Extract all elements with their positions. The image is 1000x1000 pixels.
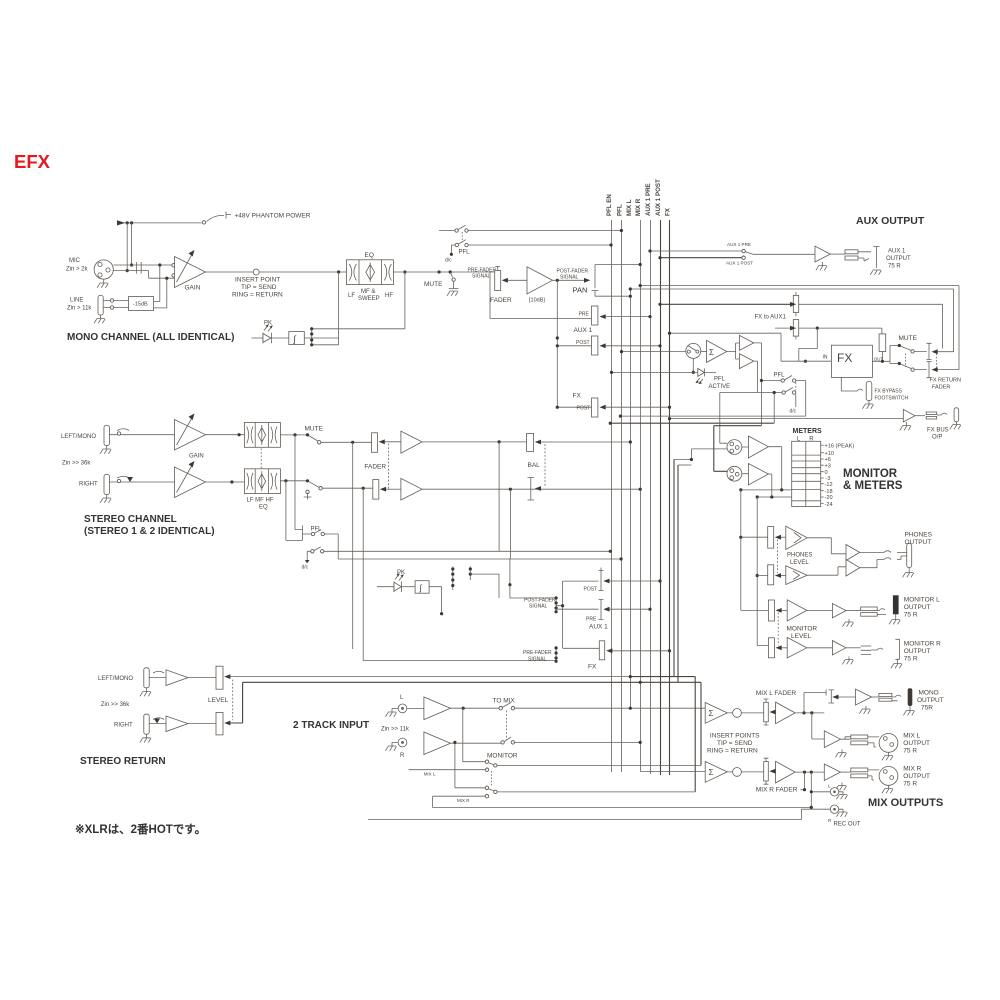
svg-text:Zin > 2k: Zin > 2k bbox=[66, 267, 89, 273]
svg-text:75 R: 75 R bbox=[903, 748, 917, 755]
svg-text:MIX L: MIX L bbox=[424, 772, 436, 777]
svg-text:MONITOR: MONITOR bbox=[487, 753, 518, 760]
svg-text:LEFT/MONO: LEFT/MONO bbox=[98, 676, 133, 682]
svg-text:+10: +10 bbox=[825, 451, 835, 457]
svg-text:MONITOR: MONITOR bbox=[843, 468, 898, 480]
svg-text:AUX 1: AUX 1 bbox=[589, 624, 608, 631]
svg-text:SIGNAL: SIGNAL bbox=[560, 275, 579, 281]
svg-text:OUTPUT: OUTPUT bbox=[904, 648, 931, 655]
svg-text:TIP = SEND: TIP = SEND bbox=[241, 284, 277, 291]
svg-text:OUTPUT: OUTPUT bbox=[904, 604, 931, 611]
svg-text:MONITOR R: MONITOR R bbox=[904, 641, 941, 648]
svg-text:MIX R: MIX R bbox=[903, 766, 921, 773]
svg-text:OUTPUT: OUTPUT bbox=[903, 773, 930, 780]
svg-text:OUTPUT: OUTPUT bbox=[886, 256, 911, 262]
svg-text:PFL: PFL bbox=[311, 527, 323, 533]
svg-text:MIC: MIC bbox=[69, 258, 81, 264]
svg-text:FX to AUX1: FX to AUX1 bbox=[755, 315, 787, 321]
svg-text:LINE: LINE bbox=[70, 298, 83, 304]
svg-text:AUX 1 PRE: AUX 1 PRE bbox=[727, 242, 751, 247]
svg-text:RING = RETURN: RING = RETURN bbox=[707, 748, 758, 755]
svg-text:FX: FX bbox=[588, 664, 597, 671]
svg-text:FADER: FADER bbox=[364, 464, 386, 471]
svg-text:(STEREO 1 & 2 IDENTICAL): (STEREO 1 & 2 IDENTICAL) bbox=[84, 526, 215, 537]
svg-text:MIX L FADER: MIX L FADER bbox=[756, 690, 797, 697]
svg-text:-12: -12 bbox=[825, 482, 833, 488]
svg-text:PFL EN: PFL EN bbox=[606, 194, 613, 216]
svg-text:POST: POST bbox=[584, 587, 598, 593]
svg-text:TO MIX: TO MIX bbox=[493, 698, 516, 705]
svg-text:L: L bbox=[828, 784, 831, 789]
svg-text:Zin >> 36k: Zin >> 36k bbox=[101, 702, 130, 708]
svg-text:MONO: MONO bbox=[919, 690, 939, 697]
svg-text:FX: FX bbox=[837, 351, 852, 365]
svg-text:FX: FX bbox=[573, 393, 582, 400]
svg-text:75 R: 75 R bbox=[904, 612, 918, 619]
svg-text:MF &: MF & bbox=[361, 289, 375, 295]
svg-text:MIX R: MIX R bbox=[457, 798, 470, 803]
svg-text:STEREO RETURN: STEREO RETURN bbox=[80, 756, 166, 767]
svg-text:RIGHT: RIGHT bbox=[79, 482, 98, 488]
svg-text:PFL: PFL bbox=[459, 250, 471, 256]
svg-text:ACTIVE: ACTIVE bbox=[709, 384, 731, 390]
svg-text:& METERS: & METERS bbox=[843, 480, 903, 492]
svg-text:d/c: d/c bbox=[445, 258, 452, 264]
svg-text:MUTE: MUTE bbox=[424, 281, 443, 288]
svg-text:POST: POST bbox=[576, 340, 590, 346]
svg-text:FOOTSWITCH: FOOTSWITCH bbox=[875, 396, 909, 402]
svg-text:75 R: 75 R bbox=[888, 264, 901, 270]
svg-text:SWEEP: SWEEP bbox=[358, 296, 380, 302]
svg-text:INSERT POINT: INSERT POINT bbox=[235, 277, 280, 284]
svg-text:MIX R FADER: MIX R FADER bbox=[756, 787, 798, 794]
svg-text:FX BYPASS: FX BYPASS bbox=[875, 389, 903, 395]
svg-text:SIGNAL: SIGNAL bbox=[529, 604, 548, 610]
svg-text:Σ: Σ bbox=[709, 768, 714, 777]
svg-text:LEVEL: LEVEL bbox=[791, 633, 812, 640]
svg-text:R: R bbox=[809, 437, 814, 443]
svg-text:LF MF HF: LF MF HF bbox=[247, 498, 274, 504]
svg-text:-24: -24 bbox=[825, 502, 833, 508]
svg-text:AUX 1: AUX 1 bbox=[574, 327, 593, 334]
svg-text:PFL: PFL bbox=[714, 377, 726, 383]
svg-text:Σ: Σ bbox=[709, 709, 714, 718]
svg-text:OUTPUT: OUTPUT bbox=[917, 697, 944, 704]
svg-text:GAIN: GAIN bbox=[185, 285, 201, 292]
svg-text:POST: POST bbox=[577, 406, 591, 412]
svg-text:+16 (PEAK): +16 (PEAK) bbox=[825, 443, 855, 449]
svg-text:STEREO CHANNEL: STEREO CHANNEL bbox=[84, 514, 177, 525]
svg-text:-18: -18 bbox=[825, 489, 833, 495]
svg-text:SIGNAL: SIGNAL bbox=[528, 657, 547, 663]
svg-text:LEFT/MONO: LEFT/MONO bbox=[61, 434, 96, 440]
svg-text:O/P: O/P bbox=[932, 435, 942, 441]
svg-text:RIGHT: RIGHT bbox=[114, 723, 133, 729]
svg-text:FX BUS: FX BUS bbox=[927, 428, 949, 434]
svg-text:EQ: EQ bbox=[365, 252, 374, 259]
svg-text:PRE: PRE bbox=[586, 617, 597, 623]
svg-text:75 R: 75 R bbox=[904, 656, 918, 663]
svg-text:+6: +6 bbox=[825, 457, 831, 463]
svg-text:AUX 1 PRE: AUX 1 PRE bbox=[645, 183, 652, 216]
svg-text:EQ: EQ bbox=[259, 505, 268, 511]
svg-text:MONITOR L: MONITOR L bbox=[904, 597, 940, 604]
svg-text:Zin >> 36k: Zin >> 36k bbox=[62, 461, 91, 467]
svg-text:LEVEL: LEVEL bbox=[208, 697, 229, 704]
svg-text:INSERT POINTS: INSERT POINTS bbox=[710, 733, 760, 740]
svg-text:FADER: FADER bbox=[490, 297, 512, 304]
svg-text:OUTPUT: OUTPUT bbox=[903, 740, 930, 747]
svg-text:IN: IN bbox=[823, 355, 828, 361]
svg-text:REC OUT: REC OUT bbox=[834, 822, 861, 828]
svg-text:PHONES: PHONES bbox=[787, 553, 812, 559]
svg-text:+48V PHANTOM POWER: +48V PHANTOM POWER bbox=[235, 213, 311, 220]
svg-text:PFL: PFL bbox=[774, 373, 786, 379]
svg-text:d/c: d/c bbox=[302, 565, 309, 571]
svg-text:FADER: FADER bbox=[932, 385, 950, 391]
svg-text:SIGNAL: SIGNAL bbox=[472, 274, 491, 280]
svg-text:MUTE: MUTE bbox=[899, 335, 918, 342]
svg-text:MUTE: MUTE bbox=[305, 426, 324, 433]
svg-text:BAL: BAL bbox=[528, 462, 541, 469]
svg-text:MIX OUTPUTS: MIX OUTPUTS bbox=[868, 797, 943, 809]
svg-text:RING = RETURN: RING = RETURN bbox=[232, 292, 283, 299]
svg-text:-20: -20 bbox=[825, 495, 833, 501]
svg-text:Zin >> 11k: Zin >> 11k bbox=[381, 727, 410, 733]
svg-text:Σ: Σ bbox=[709, 348, 714, 357]
svg-text:AUX 1: AUX 1 bbox=[888, 249, 906, 255]
svg-text:AUX OUTPUT: AUX OUTPUT bbox=[856, 215, 925, 227]
svg-text:LEVEL: LEVEL bbox=[790, 560, 809, 566]
svg-text:LF: LF bbox=[348, 293, 355, 299]
svg-text:MIX L: MIX L bbox=[626, 199, 633, 216]
svg-text:AUX 1 POST: AUX 1 POST bbox=[655, 179, 662, 216]
svg-text:※XLRは、2番HOTです。: ※XLRは、2番HOTです。 bbox=[75, 822, 206, 836]
svg-text:PHONES: PHONES bbox=[905, 532, 933, 539]
svg-text:2 TRACK INPUT: 2 TRACK INPUT bbox=[293, 720, 369, 731]
svg-text:-15dB: -15dB bbox=[133, 302, 148, 308]
svg-text:HF: HF bbox=[385, 293, 393, 299]
svg-text:MIX R: MIX R bbox=[635, 198, 642, 216]
svg-text:Zin > 11k: Zin > 11k bbox=[67, 306, 92, 312]
svg-text:AUX 1 POST: AUX 1 POST bbox=[726, 261, 753, 266]
svg-text:PFL: PFL bbox=[616, 204, 623, 216]
svg-text:75R: 75R bbox=[921, 705, 933, 712]
svg-text:0: 0 bbox=[825, 470, 828, 476]
svg-text:TIP = SEND: TIP = SEND bbox=[717, 740, 753, 747]
svg-text:METERS: METERS bbox=[793, 428, 823, 435]
svg-text:+3: +3 bbox=[825, 463, 831, 469]
svg-text:PRE-FADER: PRE-FADER bbox=[523, 650, 552, 656]
svg-text:EFX: EFX bbox=[14, 151, 51, 172]
svg-text:PRE: PRE bbox=[579, 312, 590, 318]
svg-text:FX: FX bbox=[665, 207, 672, 216]
svg-text:GAIN: GAIN bbox=[189, 454, 204, 460]
svg-text:MONO CHANNEL (ALL IDENTICAL): MONO CHANNEL (ALL IDENTICAL) bbox=[67, 332, 234, 343]
svg-text:FX RETURN: FX RETURN bbox=[930, 378, 962, 384]
svg-text:d/c: d/c bbox=[790, 409, 797, 415]
svg-text:PAN: PAN bbox=[573, 286, 588, 295]
svg-text:MIX L: MIX L bbox=[903, 733, 920, 740]
svg-text:[10dB]: [10dB] bbox=[529, 298, 545, 304]
svg-text:R: R bbox=[400, 753, 405, 759]
svg-text:MONITOR: MONITOR bbox=[787, 626, 818, 633]
svg-text:75 R: 75 R bbox=[903, 781, 917, 788]
svg-text:OUTPUT: OUTPUT bbox=[905, 539, 932, 546]
